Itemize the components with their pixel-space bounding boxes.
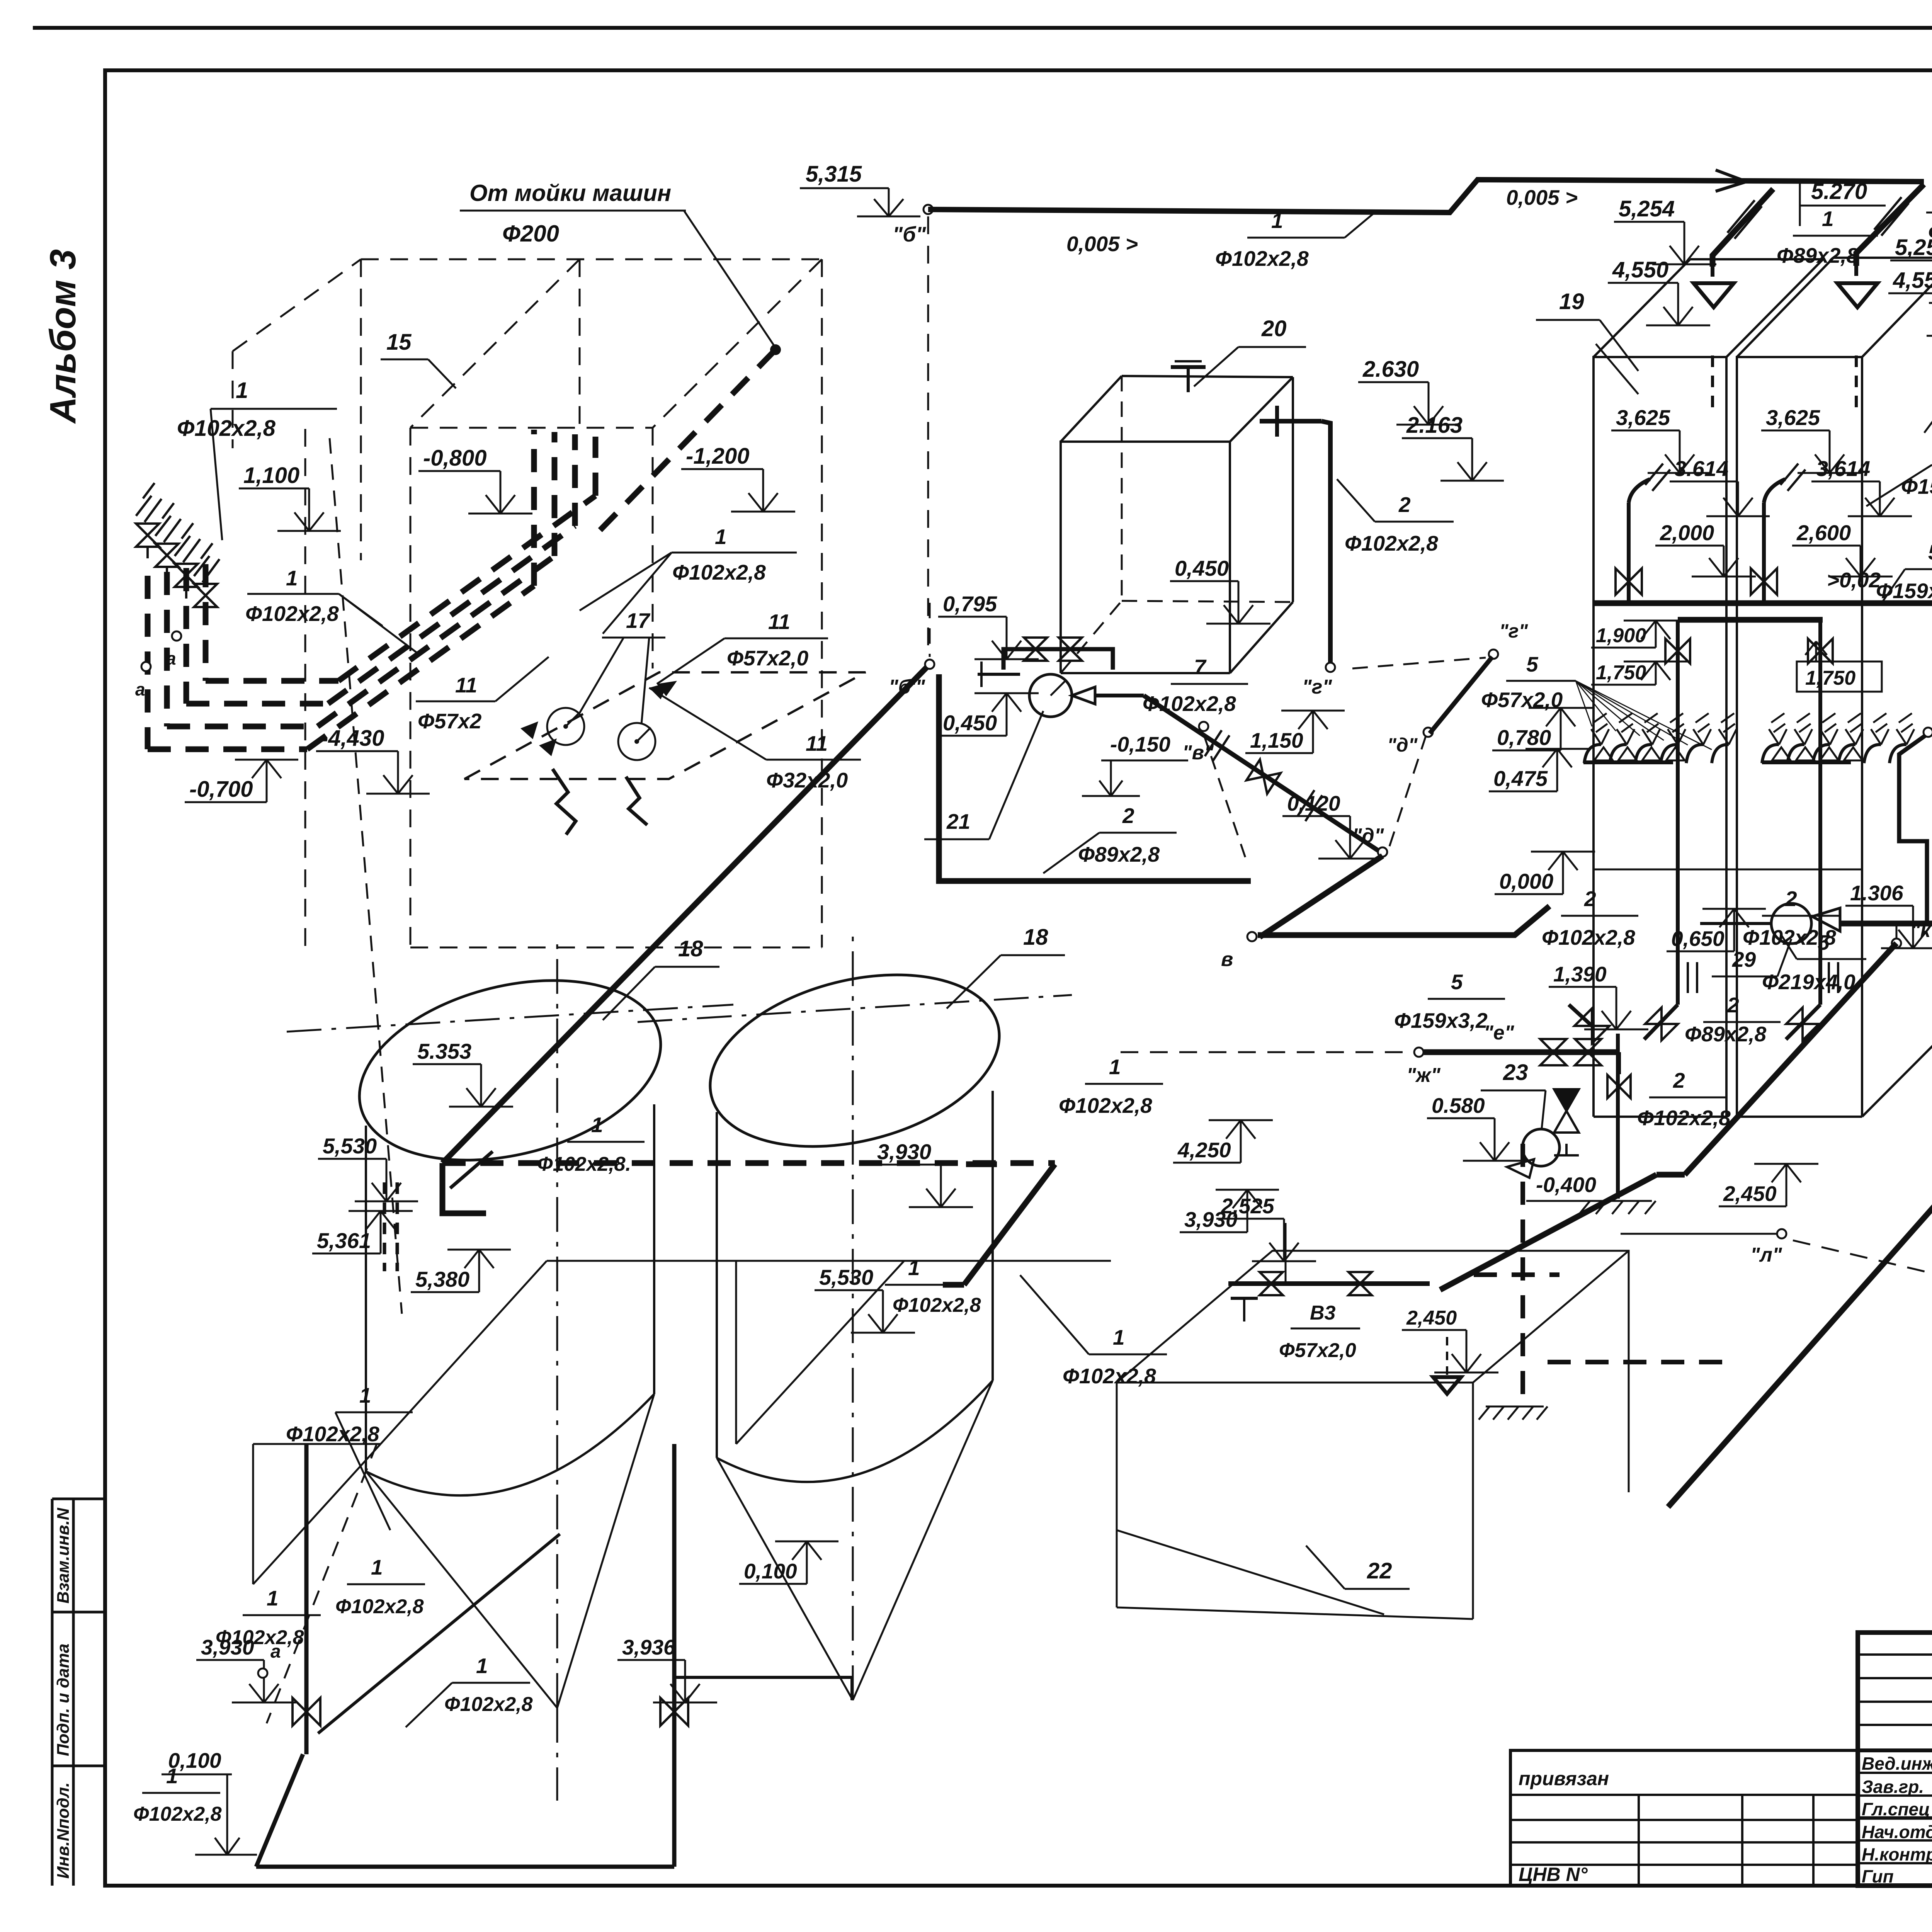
svg-text:1: 1	[715, 525, 727, 549]
svg-text:1: 1	[267, 1586, 279, 1610]
svg-text:2,450: 2,450	[1406, 1307, 1457, 1329]
svg-text:2,525: 2,525	[1221, 1194, 1275, 1218]
svg-text:0,450: 0,450	[1175, 556, 1229, 580]
svg-text:5: 5	[1928, 540, 1932, 564]
svg-text:Нач.отд: Нач.отд	[1862, 1822, 1932, 1842]
svg-text:Ф200: Ф200	[502, 221, 559, 247]
svg-text:5,530: 5,530	[819, 1265, 873, 1289]
svg-text:Ф102x2,8: Ф102x2,8	[1059, 1094, 1152, 1117]
svg-text:Ф159x3,2: Ф159x3,2	[1394, 1009, 1488, 1032]
svg-text:2: 2	[1673, 1068, 1685, 1092]
svg-text:Ф102x2,8: Ф102x2,8	[444, 1693, 533, 1716]
svg-text:11: 11	[768, 610, 790, 634]
svg-text:0,120: 0,120	[1287, 791, 1340, 815]
svg-text:18: 18	[1023, 925, 1048, 950]
svg-text:1: 1	[1113, 1325, 1125, 1349]
svg-text:2: 2	[1398, 493, 1411, 517]
svg-text:Ф102x2,8: Ф102x2,8	[1143, 692, 1236, 716]
svg-text:1: 1	[908, 1256, 920, 1280]
svg-text:Гип: Гип	[1862, 1866, 1894, 1886]
svg-text:Вед.инж: Вед.инж	[1862, 1753, 1932, 1774]
svg-text:4,250: 4,250	[1177, 1138, 1231, 1162]
svg-text:2: 2	[1727, 993, 1739, 1017]
svg-text:1,750: 1,750	[1805, 667, 1855, 689]
svg-text:привязан: привязан	[1519, 1768, 1609, 1789]
svg-text:23: 23	[1503, 1060, 1528, 1085]
svg-text:Ф57x2,0: Ф57x2,0	[727, 646, 809, 670]
svg-text:Ф102x2,8: Ф102x2,8	[1637, 1106, 1731, 1130]
svg-text:Ф102x2,8: Ф102x2,8	[216, 1626, 304, 1649]
svg-text:5,315: 5,315	[806, 162, 862, 187]
svg-text:Ф102x2,8: Ф102x2,8	[672, 560, 766, 584]
svg-text:11: 11	[806, 731, 828, 755]
svg-text:19: 19	[1559, 289, 1584, 314]
svg-text:0,450: 0,450	[943, 711, 997, 735]
svg-text:1,750: 1,750	[1596, 662, 1646, 684]
svg-text:Н.контр: Н.контр	[1862, 1844, 1932, 1864]
svg-text:5: 5	[1526, 652, 1539, 676]
svg-text:От мойки машин: От мойки машин	[469, 180, 671, 206]
svg-text:3,625: 3,625	[1766, 405, 1820, 430]
svg-text:0,000: 0,000	[1499, 869, 1553, 893]
svg-text:Ф102x2,8: Ф102x2,8	[177, 416, 276, 441]
svg-text:Ф219x4,0: Ф219x4,0	[1762, 970, 1855, 994]
svg-text:0,005 >: 0,005 >	[1506, 185, 1578, 209]
svg-text:"д": "д"	[1387, 734, 1418, 756]
svg-text:Ф57x2: Ф57x2	[418, 709, 482, 733]
svg-text:5: 5	[1818, 930, 1830, 954]
svg-text:1: 1	[286, 566, 298, 590]
svg-text:5,530: 5,530	[323, 1134, 377, 1158]
svg-text:"б'": "б'"	[889, 676, 925, 698]
svg-text:29: 29	[1732, 947, 1756, 971]
svg-text:-0,150: -0,150	[1110, 732, 1170, 756]
svg-text:0,780: 0,780	[1497, 725, 1551, 750]
svg-text:0,100: 0,100	[744, 1559, 797, 1583]
svg-text:Ф57x2,0: Ф57x2,0	[1279, 1339, 1356, 1362]
svg-text:1,100: 1,100	[243, 463, 299, 488]
svg-text:1: 1	[1271, 209, 1283, 233]
svg-text:Ф102x2,8: Ф102x2,8	[335, 1595, 424, 1618]
svg-text:0,475: 0,475	[1493, 766, 1548, 791]
svg-text:Ф102x2,8: Ф102x2,8	[245, 602, 339, 626]
svg-text:Подп. и дата: Подп. и дата	[54, 1644, 73, 1756]
svg-text:в: в	[1221, 948, 1233, 971]
svg-text:3,930: 3,930	[877, 1139, 931, 1164]
svg-text:11: 11	[455, 673, 477, 697]
svg-text:2: 2	[1122, 804, 1134, 828]
svg-text:-4,430: -4,430	[321, 726, 384, 751]
svg-text:15: 15	[386, 330, 412, 355]
svg-text:Ф102x2,8: Ф102x2,8	[286, 1422, 379, 1446]
svg-text:"в": "в"	[1182, 742, 1214, 764]
svg-text:Инв.Nподл.: Инв.Nподл.	[54, 1782, 73, 1879]
svg-text:В3: В3	[1310, 1302, 1336, 1324]
svg-text:"д": "д"	[1352, 825, 1384, 847]
svg-text:Ф102x2,8: Ф102x2,8	[1345, 531, 1438, 555]
svg-text:0,005 >: 0,005 >	[1066, 232, 1138, 256]
svg-text:"б": "б"	[893, 222, 926, 246]
svg-text:"г": "г"	[1302, 676, 1332, 698]
svg-text:Зав.гр.: Зав.гр.	[1862, 1777, 1924, 1797]
svg-text:1: 1	[1109, 1055, 1121, 1079]
svg-text:1,390: 1,390	[1553, 962, 1607, 986]
svg-text:0,650: 0,650	[1671, 927, 1725, 951]
svg-text:Ф89x2,8: Ф89x2,8	[1078, 842, 1160, 866]
svg-text:1: 1	[371, 1555, 383, 1579]
svg-text:5: 5	[1451, 970, 1463, 994]
svg-text:-0,800: -0,800	[423, 446, 486, 471]
svg-text:3,625: 3,625	[1616, 405, 1670, 430]
svg-text:Ф102x2,8.: Ф102x2,8.	[537, 1153, 631, 1175]
svg-text:1: 1	[591, 1113, 603, 1137]
svg-text:Ф89x2,8: Ф89x2,8	[1685, 1022, 1767, 1046]
svg-text:1,150: 1,150	[1250, 728, 1303, 752]
svg-text:3,614: 3,614	[1816, 456, 1870, 481]
svg-text:21: 21	[946, 810, 970, 833]
svg-text:Ф102x2,8: Ф102x2,8	[893, 1294, 981, 1316]
svg-text:17: 17	[626, 609, 651, 633]
svg-text:1: 1	[476, 1654, 488, 1678]
svg-text:Ф102x2,8: Ф102x2,8	[1215, 247, 1309, 270]
svg-text:"ж": "ж"	[1406, 1064, 1441, 1087]
svg-text:-1,200: -1,200	[686, 444, 749, 469]
svg-text:-0,700: -0,700	[189, 777, 253, 802]
svg-text:1: 1	[359, 1383, 371, 1407]
svg-text:1: 1	[1822, 207, 1834, 231]
svg-text:5,380: 5,380	[415, 1267, 469, 1291]
svg-text:-0,400: -0,400	[1536, 1173, 1596, 1197]
svg-text:Альбом 3: Альбом 3	[43, 249, 83, 424]
svg-text:0,795: 0,795	[943, 592, 997, 616]
svg-text:а: а	[166, 648, 176, 668]
svg-text:3.614: 3.614	[1674, 456, 1728, 481]
svg-text:5,254: 5,254	[1895, 235, 1932, 260]
svg-text:2: 2	[1584, 887, 1596, 911]
svg-text:5.353: 5.353	[417, 1039, 471, 1063]
svg-text:Ф102x2,8: Ф102x2,8	[1063, 1364, 1156, 1388]
svg-text:1,900: 1,900	[1596, 624, 1646, 647]
svg-text:4,550: 4,550	[1893, 268, 1932, 293]
svg-text:"е": "е"	[1484, 1022, 1515, 1044]
svg-text:Взам.инв.N: Взам.инв.N	[54, 1507, 73, 1604]
svg-text:2: 2	[1785, 887, 1797, 911]
svg-text:Ф102x2,8: Ф102x2,8	[1542, 925, 1635, 949]
svg-text:а: а	[135, 679, 145, 699]
svg-text:0.580: 0.580	[1432, 1094, 1485, 1117]
svg-text:7: 7	[1194, 655, 1207, 679]
svg-text:5,361: 5,361	[317, 1228, 371, 1253]
svg-text:Гл.спец: Гл.спец	[1862, 1799, 1930, 1819]
svg-text:2,600: 2,600	[1796, 520, 1851, 545]
svg-text:Ф102x2,8: Ф102x2,8	[133, 1803, 222, 1825]
svg-text:2.630: 2.630	[1362, 357, 1419, 382]
svg-text:2,000: 2,000	[1660, 520, 1714, 545]
svg-text:5,254: 5,254	[1619, 196, 1675, 221]
svg-text:1: 1	[236, 378, 248, 403]
svg-text:ЦНВ N°: ЦНВ N°	[1519, 1864, 1588, 1885]
svg-text:2,450: 2,450	[1723, 1182, 1777, 1206]
svg-text:0,100: 0,100	[168, 1748, 221, 1772]
svg-text:"л": "л"	[1750, 1244, 1782, 1266]
svg-text:1.306: 1.306	[1850, 881, 1903, 905]
svg-text:4,550: 4,550	[1612, 257, 1668, 282]
svg-text:22: 22	[1367, 1558, 1392, 1583]
svg-text:>0,02: >0,02	[1827, 568, 1881, 592]
svg-text:Ф159x3,2: Ф159x3,2	[1901, 474, 1932, 498]
svg-text:5.270: 5.270	[1811, 179, 1867, 204]
svg-text:20: 20	[1261, 316, 1287, 341]
svg-text:3,936: 3,936	[622, 1635, 675, 1659]
svg-text:18: 18	[678, 936, 703, 961]
svg-text:"г": "г"	[1499, 620, 1528, 642]
